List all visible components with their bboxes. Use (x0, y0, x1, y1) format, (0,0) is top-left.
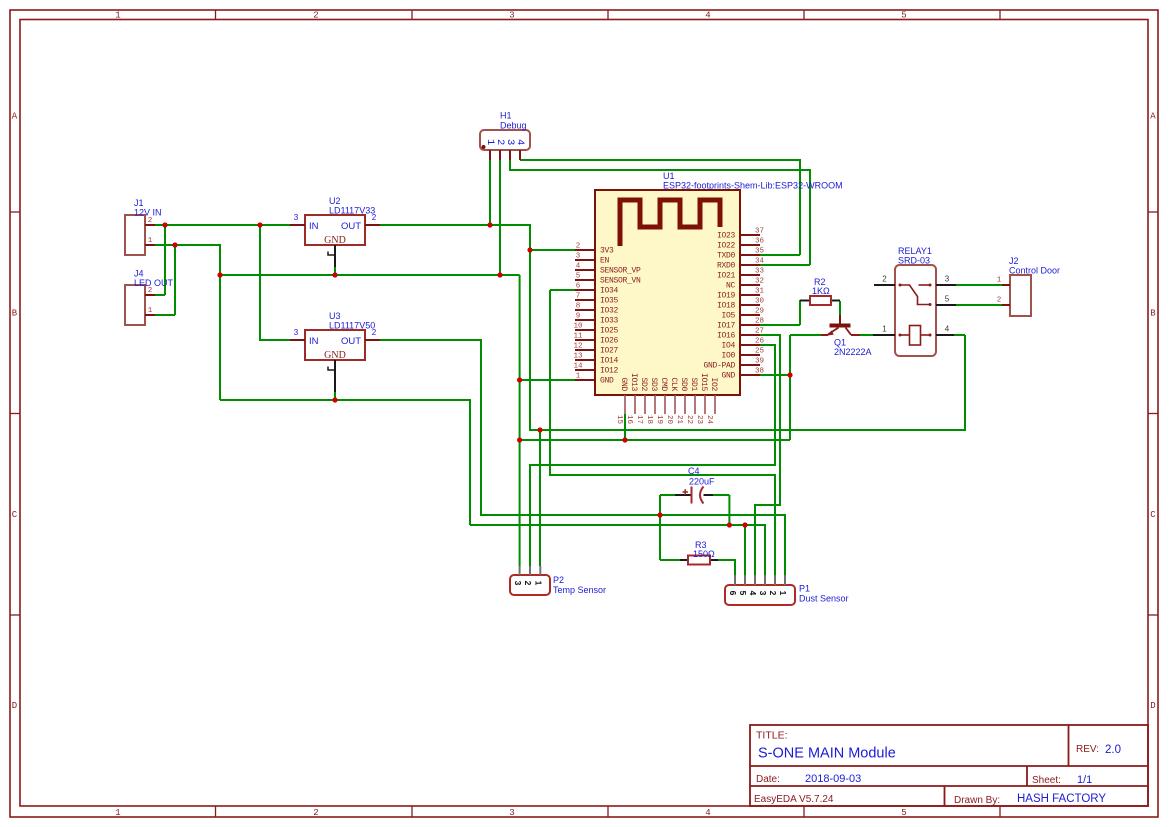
svg-text:Drawn By:: Drawn By: (954, 795, 1000, 806)
svg-text:3: 3 (294, 328, 299, 337)
J1 pin 2 (145, 217, 155, 225)
U1 pin 29 IO5 (721, 308, 764, 321)
svg-text:38: 38 (755, 368, 764, 376)
U1 pin 6 IO34 (575, 283, 619, 296)
svg-text:21: 21 (675, 415, 683, 425)
svg-text:2: 2 (768, 591, 778, 596)
svg-text:5: 5 (945, 295, 950, 304)
wire GND net: U3 GND tail (334, 392, 336, 400)
svg-text:4: 4 (705, 808, 710, 818)
svg-text:2: 2 (523, 581, 533, 586)
H1 pin 1 (484, 139, 496, 160)
wire RELAY1.5 to J2.2 (956, 304, 1002, 306)
svg-text:S-ONE MAIN Module: S-ONE MAIN Module (758, 746, 896, 762)
svg-text:GND-PAD: GND-PAD (703, 362, 735, 371)
svg-text:IO15: IO15 (699, 373, 708, 392)
connector J1 12V IN (125, 198, 162, 255)
U1 pin 16 IO13 (625, 373, 638, 425)
svg-text:4: 4 (705, 11, 710, 21)
junction dots (162, 222, 792, 527)
RELAY1 pin 4 (936, 325, 954, 336)
module U1 ESP32-WROOM (595, 171, 843, 395)
svg-text:5: 5 (901, 11, 906, 21)
J2 pin 2 (997, 297, 1010, 306)
svg-text:LD1117V33: LD1117V33 (329, 206, 375, 216)
svg-text:CLK: CLK (669, 377, 678, 391)
svg-text:B: B (1150, 309, 1156, 319)
svg-text:RXD0: RXD0 (717, 262, 736, 271)
svg-text:IO22: IO22 (717, 242, 736, 251)
svg-text:IO35: IO35 (600, 297, 619, 306)
svg-text:3V3: 3V3 (600, 247, 614, 256)
svg-text:Control Door: Control Door (1009, 266, 1060, 276)
svg-text:EasyEDA V5.7.24: EasyEDA V5.7.24 (754, 794, 834, 805)
svg-text:10: 10 (573, 323, 583, 331)
resistor R3 150Ohm (680, 540, 718, 565)
U1 pin 33 IO21 (717, 268, 765, 281)
U2 pin 3 IN (290, 213, 305, 225)
wire GND net: Q1 emitter down x790 (790, 335, 821, 440)
P1 pin 3 (758, 575, 768, 596)
svg-text:39: 39 (755, 358, 764, 366)
H1 pin 4 (514, 139, 526, 160)
wire IO17 net: U1.28 to R2 left (760, 300, 800, 325)
connector J4 LED OUT (125, 269, 174, 326)
wire TXD0 net: H1.4 to U1.35 (520, 160, 800, 255)
U1 pin 12 IO27 (573, 343, 618, 356)
svg-text:17: 17 (635, 415, 643, 424)
svg-text:3: 3 (509, 11, 514, 21)
svg-text:IO17: IO17 (717, 322, 736, 331)
svg-text:LD1117V50: LD1117V50 (329, 321, 375, 331)
svg-text:220uF: 220uF (689, 476, 715, 486)
svg-text:1: 1 (148, 237, 153, 245)
svg-text:4: 4 (576, 263, 581, 271)
svg-text:2: 2 (148, 217, 153, 225)
svg-text:1: 1 (534, 581, 544, 586)
wire 3V3 net: H1.1 down (489, 160, 491, 225)
svg-text:IO19: IO19 (717, 292, 736, 301)
svg-text:9: 9 (576, 313, 581, 321)
svg-text:IO13: IO13 (629, 373, 638, 392)
U2 pin 2 OUT (365, 213, 380, 225)
wire GND2 net: P1.5 up to rail (744, 525, 746, 575)
svg-text:U3: U3 (329, 311, 341, 321)
wire GND net: U1 GND pin38 (760, 374, 790, 376)
U1 pin 31 IO19 (717, 288, 765, 301)
connector P2 Temp Sensor (510, 575, 606, 595)
svg-text:3: 3 (576, 253, 581, 261)
svg-text:LED OUT: LED OUT (134, 278, 174, 288)
svg-text:5: 5 (738, 591, 748, 596)
regulator U3 LD1117V50 (305, 311, 375, 361)
svg-text:2: 2 (372, 328, 377, 337)
svg-text:SENSOR_VP: SENSOR_VP (600, 267, 641, 276)
svg-text:15: 15 (615, 415, 623, 425)
svg-text:3: 3 (758, 591, 768, 596)
svg-text:1KΩ: 1KΩ (812, 286, 830, 296)
wire IO4 net: U1.26 to P2.2 (530, 345, 775, 566)
svg-text:Q1: Q1 (834, 338, 846, 348)
H1 pin-1 marker (482, 145, 486, 149)
svg-text:1: 1 (778, 591, 788, 596)
svg-text:12: 12 (573, 343, 582, 351)
svg-text:J4: J4 (134, 269, 144, 279)
svg-text:27: 27 (755, 328, 764, 336)
svg-text:11: 11 (573, 333, 583, 341)
regulator U2 LD1117V33 (305, 196, 375, 246)
svg-text:SD0: SD0 (679, 377, 688, 391)
svg-text:J2: J2 (1009, 256, 1019, 266)
U1 pin 5 SENSOR_VN (575, 273, 641, 286)
svg-text:IO16: IO16 (717, 332, 736, 341)
svg-text:GND: GND (619, 377, 628, 391)
connector P1 Dust Sensor (725, 584, 849, 606)
svg-text:2.0: 2.0 (1105, 744, 1121, 756)
svg-text:H1: H1 (500, 111, 512, 121)
RELAY1 pin 1 (873, 325, 895, 336)
U3 pin 2 OUT (365, 328, 380, 340)
U1 pin 38 GND (721, 368, 764, 381)
svg-text:IO0: IO0 (721, 352, 735, 361)
svg-text:C: C (1150, 510, 1156, 520)
svg-text:5: 5 (901, 808, 906, 818)
wire IO34 net: U1.6 to P1.2 (550, 290, 775, 575)
svg-text:5: 5 (576, 273, 581, 281)
svg-text:3: 3 (294, 213, 299, 222)
U1 pin 20 CLK (665, 377, 678, 424)
svg-text:2: 2 (882, 275, 887, 284)
svg-text:IO12: IO12 (600, 367, 619, 376)
svg-text:8: 8 (576, 303, 581, 311)
wire GND net: J1.1 east then south (155, 245, 220, 400)
svg-text:24: 24 (705, 415, 713, 425)
svg-text:2: 2 (313, 808, 318, 818)
svg-text:36: 36 (755, 238, 765, 246)
svg-text:2018-09-03: 2018-09-03 (805, 773, 861, 785)
U1 pin 13 IO14 (573, 353, 618, 366)
svg-text:32: 32 (755, 278, 764, 286)
P1 pin 5 (738, 575, 748, 596)
svg-text:IO33: IO33 (600, 317, 619, 326)
resistor R2 1KOhm (800, 277, 840, 305)
svg-text:31: 31 (755, 288, 765, 296)
svg-text:150Ω: 150Ω (693, 549, 715, 559)
wire 5V net: C4 left lead and R3 left (660, 495, 680, 560)
svg-text:2N2222A: 2N2222A (834, 347, 872, 357)
svg-text:IN: IN (309, 221, 319, 232)
relay RELAY1 SRD-03 (895, 246, 936, 356)
J2 pin 1 (997, 277, 1010, 286)
U1 pin 7 IO35 (575, 293, 619, 306)
svg-text:14: 14 (573, 363, 583, 371)
svg-text:1: 1 (997, 277, 1002, 285)
wire GND2 net: rail y525 to P1.3 (470, 525, 765, 575)
U1 pin 10 IO25 (573, 323, 618, 336)
wire GND net: U1 bottom GND pin15 (624, 414, 626, 440)
svg-text:37: 37 (755, 228, 764, 236)
wire 12V net: junction to U3.IN (260, 225, 290, 340)
svg-text:D: D (12, 701, 17, 711)
transistor Q1 2N2222A (821, 315, 872, 357)
svg-text:2: 2 (148, 287, 153, 295)
svg-text:C4: C4 (688, 466, 700, 476)
U1 pin 14 IO12 (573, 363, 618, 376)
svg-text:P1: P1 (799, 584, 810, 594)
svg-text:GND: GND (324, 350, 346, 361)
svg-text:CMD: CMD (659, 377, 668, 391)
connector J2 Control Door (1009, 256, 1060, 316)
svg-text:D: D (1150, 701, 1155, 711)
svg-text:4: 4 (514, 139, 526, 145)
wire 12V net: junction to J4.2 (155, 225, 165, 295)
wire R2 right to Q1 base (839, 301, 841, 315)
U1 pin 15 GND (615, 377, 628, 424)
svg-text:GND: GND (721, 372, 735, 381)
svg-text:4: 4 (748, 591, 758, 596)
U3 pin 3 IN (290, 328, 305, 340)
wire 3V3 net: U2.OUT east, south to relay4 and P2.1 (380, 225, 965, 566)
U3 ground symbol (328, 360, 335, 392)
U1 pin 34 RXD0 (717, 258, 765, 271)
svg-text:1: 1 (115, 808, 120, 818)
U1 pin 36 IO22 (717, 238, 765, 251)
svg-text:RELAY1: RELAY1 (898, 246, 932, 256)
U1 antenna symbol (620, 200, 720, 246)
svg-text:2: 2 (313, 11, 318, 21)
U1 pin 27 IO16 (717, 328, 764, 341)
P2 pin 2 (523, 566, 533, 586)
svg-text:SD1: SD1 (689, 377, 698, 391)
svg-text:7: 7 (576, 293, 581, 301)
P1 pin 1 (778, 575, 788, 596)
svg-text:26: 26 (755, 338, 765, 346)
J4 pin 1 (145, 307, 155, 315)
wire GND net: vertical to P2.3 (519, 275, 521, 566)
svg-text:B: B (12, 309, 18, 319)
svg-text:OUT: OUT (341, 221, 361, 232)
svg-text:IO34: IO34 (600, 287, 619, 296)
svg-text:6: 6 (576, 283, 581, 291)
svg-text:SENSOR_VN: SENSOR_VN (600, 277, 641, 286)
U1 pin 32 NC (726, 278, 764, 291)
svg-text:IO27: IO27 (600, 347, 619, 356)
wire GND net: horizontal rail y275 (220, 274, 520, 276)
wire GND net: H1.2 down (499, 160, 501, 275)
svg-text:OUT: OUT (341, 336, 361, 347)
P1 pin 6 (728, 575, 738, 596)
svg-text:ESP32-footprints-Shem-Lib:ESP3: ESP32-footprints-Shem-Lib:ESP32-WROOM (663, 181, 843, 191)
svg-text:IO4: IO4 (721, 342, 735, 351)
U1 pin 24 IO2 (705, 377, 718, 424)
svg-text:C: C (12, 510, 18, 520)
svg-text:IO26: IO26 (600, 337, 619, 346)
wire 5V net: U3.OUT to rail y515 to P1.1 (380, 340, 785, 575)
U1 pin 37 IO23 (717, 228, 764, 241)
svg-text:1: 1 (148, 307, 153, 315)
svg-text:SD2: SD2 (639, 377, 648, 391)
wire RELAY1.3 to J2.1 (956, 284, 1002, 286)
svg-text:GND: GND (324, 235, 346, 246)
U1 pin 30 IO18 (717, 298, 765, 311)
svg-text:Dust Sensor: Dust Sensor (799, 594, 849, 604)
U1 pin 35 TXD0 (717, 248, 765, 261)
U1 pin 26 IO4 (721, 338, 764, 351)
RELAY1 pin 3 (936, 275, 956, 286)
wire Q1 collector to RELAY1.1 (860, 334, 876, 336)
svg-text:Sheet:: Sheet: (1032, 775, 1061, 786)
title block (750, 725, 1148, 806)
svg-text:REV:: REV: (1076, 744, 1099, 755)
svg-text:35: 35 (755, 248, 765, 256)
wire GND net: rail y440 (520, 439, 790, 441)
svg-text:IO18: IO18 (717, 302, 736, 311)
RELAY1 switch common and arm (899, 284, 932, 307)
P1 pin 4 (748, 575, 758, 596)
svg-text:IO14: IO14 (600, 357, 619, 366)
svg-text:A: A (1150, 112, 1156, 122)
svg-text:A: A (12, 112, 18, 122)
svg-text:13: 13 (573, 353, 583, 361)
svg-text:20: 20 (665, 415, 673, 425)
RELAY1 pin 2 (874, 275, 895, 286)
capacitor C4 220uF (675, 466, 715, 504)
P1 pin 2 (768, 575, 778, 596)
svg-text:23: 23 (695, 415, 703, 425)
svg-text:TXD0: TXD0 (717, 252, 736, 261)
U1 pin 39 GND-PAD (703, 358, 764, 371)
U1 pin 4 SENSOR_VP (575, 263, 641, 276)
U1 pin 22 SD1 (685, 377, 698, 424)
svg-text:IO32: IO32 (600, 307, 619, 316)
svg-text:IO25: IO25 (600, 327, 619, 336)
svg-text:1: 1 (115, 11, 120, 21)
svg-text:2: 2 (576, 243, 581, 251)
U1 pin 28 IO17 (717, 318, 764, 331)
svg-text:SD3: SD3 (649, 377, 658, 391)
P2 pin 1 (534, 566, 544, 586)
svg-text:33: 33 (755, 268, 765, 276)
svg-text:Date:: Date: (756, 774, 780, 785)
svg-text:Debug: Debug (500, 121, 527, 131)
svg-text:1: 1 (882, 325, 887, 334)
wire 12V net: J1.2 to U2.IN (155, 224, 290, 226)
svg-text:GND: GND (600, 377, 614, 386)
connector H1 Debug (480, 111, 530, 151)
svg-text:TITLE:: TITLE: (756, 730, 788, 742)
U1 pin 25 IO0 (721, 348, 764, 361)
svg-text:22: 22 (685, 415, 693, 424)
wire GND net: to U1 GND pin1 (520, 379, 575, 381)
P2 pin 3 (513, 566, 523, 586)
svg-text:34: 34 (755, 258, 765, 266)
svg-text:3: 3 (509, 808, 514, 818)
svg-text:HASH FACTORY: HASH FACTORY (1017, 793, 1106, 805)
svg-text:IO23: IO23 (717, 232, 736, 241)
svg-text:1/1: 1/1 (1077, 774, 1092, 786)
svg-text:16: 16 (625, 415, 633, 425)
wire GND net: J4.1 up to junction (155, 245, 175, 315)
svg-text:28: 28 (755, 318, 764, 326)
wire GND net: U2 GND tail (334, 267, 336, 275)
svg-text:19: 19 (655, 415, 663, 424)
U1 pin 11 IO26 (573, 333, 618, 346)
U1 pin 18 SD3 (645, 377, 658, 424)
J1 pin 1 (145, 237, 155, 245)
U2 ground symbol (328, 245, 335, 267)
svg-text:IO2: IO2 (709, 377, 718, 391)
svg-text:NC: NC (726, 282, 736, 291)
U1 pin 19 CMD (655, 377, 668, 424)
svg-text:2: 2 (372, 213, 377, 222)
svg-text:SRD-03: SRD-03 (898, 256, 930, 266)
RELAY1 pin 5 (936, 295, 956, 306)
svg-text:3: 3 (513, 581, 523, 586)
svg-text:25: 25 (755, 348, 765, 356)
H1 pin 3 (504, 139, 516, 160)
U1 pin 1 GND (575, 373, 614, 386)
svg-text:EN: EN (600, 257, 610, 266)
U1 pin 17 SD2 (635, 377, 648, 424)
svg-text:Temp Sensor: Temp Sensor (553, 585, 606, 595)
H1 pin 2 (494, 139, 506, 160)
svg-text:U1: U1 (663, 171, 675, 181)
wire R3 right to P1.6 (718, 560, 735, 575)
U1 pin 23 IO15 (695, 373, 708, 425)
svg-text:2: 2 (997, 297, 1002, 305)
U1 pin 2 3V3 (575, 243, 614, 256)
U1 pin 8 IO32 (575, 303, 619, 316)
svg-text:3: 3 (945, 275, 950, 284)
RELAY1 coil (899, 326, 932, 346)
wire RXD0 net: H1.3 to U1.34 (510, 160, 810, 265)
J4 pin 2 (145, 287, 155, 295)
svg-text:IO21: IO21 (717, 272, 736, 281)
wire C4 minus to GND2 rail (713, 495, 729, 525)
svg-text:29: 29 (755, 308, 764, 316)
svg-text:IN: IN (309, 336, 319, 347)
svg-text:IO5: IO5 (721, 312, 735, 321)
wire GND net: rail y400 to GND2 (220, 400, 470, 525)
U1 pin 21 SD0 (675, 377, 688, 424)
svg-text:4: 4 (945, 325, 950, 334)
svg-text:12V IN: 12V IN (134, 208, 162, 218)
svg-text:6: 6 (728, 591, 738, 596)
svg-text:J1: J1 (134, 198, 144, 208)
svg-text:18: 18 (645, 415, 653, 424)
U1 pin 3 EN (575, 253, 610, 266)
svg-text:1: 1 (576, 373, 581, 381)
svg-text:30: 30 (755, 298, 765, 306)
svg-text:U2: U2 (329, 196, 341, 206)
U1 pin 9 IO33 (575, 313, 619, 326)
wire IO16 net: U1.27 to P1.4 (755, 335, 780, 575)
svg-text:P2: P2 (553, 575, 564, 585)
